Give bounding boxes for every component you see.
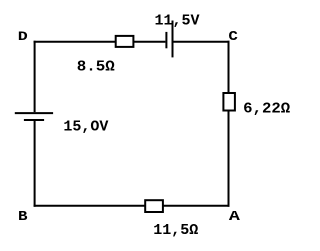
svg-text:A: A xyxy=(229,210,241,225)
svg-text:C: C xyxy=(228,30,238,45)
svg-text:15,OV: 15,OV xyxy=(63,118,108,135)
svg-text:11,5V: 11,5V xyxy=(155,13,200,30)
svg-text:6,22Ω: 6,22Ω xyxy=(243,101,290,118)
svg-text:D: D xyxy=(18,29,28,44)
svg-text:11,5Ω: 11,5Ω xyxy=(153,222,198,239)
svg-text:B: B xyxy=(18,210,28,225)
svg-text:8.5Ω: 8.5Ω xyxy=(77,58,115,75)
